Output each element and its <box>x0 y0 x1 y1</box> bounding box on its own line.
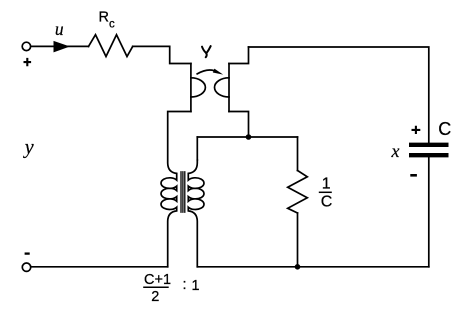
label minus bottom-left <box>25 252 30 254</box>
wire capacitor bottom <box>428 157 430 266</box>
label minus capacitor <box>410 174 417 177</box>
gyrator U1 right port <box>228 64 230 112</box>
svg-text::: : <box>183 277 187 293</box>
gyrator coupling arrow head <box>213 69 223 75</box>
svg-text:1: 1 <box>322 175 331 192</box>
wire mid rail to resistor 1/C <box>297 137 299 171</box>
wire gyrator right top to rail <box>229 47 249 64</box>
capacitor C bottom plate <box>411 153 446 157</box>
resistor Rc <box>89 35 133 57</box>
svg-text:y: y <box>23 137 34 159</box>
terminal bottom-left <box>22 263 30 271</box>
transformer T1 right winding <box>188 160 204 267</box>
label fraction 1/C bar <box>319 191 332 193</box>
svg-text:u: u <box>55 19 64 39</box>
svg-text:1: 1 <box>192 278 200 294</box>
wire top rail <box>249 47 429 142</box>
wire mid rail to transformer right <box>196 137 198 160</box>
wire bottom rail left <box>31 266 168 268</box>
svg-text:R: R <box>99 10 109 26</box>
label gamma <box>202 46 211 57</box>
wire input top <box>31 45 89 47</box>
arrow head input u <box>54 41 70 53</box>
junction node bottom <box>295 264 301 270</box>
resistor 1/C <box>288 171 308 214</box>
label turns ratio bar <box>143 286 169 288</box>
wire resistor 1/C bottom <box>297 213 299 267</box>
wire resistor to gyrator left <box>133 46 191 63</box>
svg-text:x: x <box>391 141 400 161</box>
label plus top-left <box>24 58 32 66</box>
gyrator coupling arrow arc <box>197 70 214 74</box>
svg-text:2: 2 <box>151 289 159 305</box>
svg-text:C: C <box>321 193 333 210</box>
gyrator U1 left port <box>190 64 192 112</box>
capacitor C top plate <box>411 143 446 147</box>
transformer core <box>180 172 182 212</box>
junction node mid <box>246 134 252 140</box>
label plus capacitor <box>412 126 421 134</box>
transformer T1 left winding <box>161 112 191 267</box>
svg-text:C: C <box>438 119 451 139</box>
svg-text:C+1: C+1 <box>144 272 171 288</box>
wire mid rail <box>197 136 297 138</box>
wire bottom rail right <box>197 266 428 268</box>
svg-text:c: c <box>109 19 115 31</box>
wire gyrator right bottom <box>229 112 249 138</box>
terminal top-left <box>22 42 30 50</box>
